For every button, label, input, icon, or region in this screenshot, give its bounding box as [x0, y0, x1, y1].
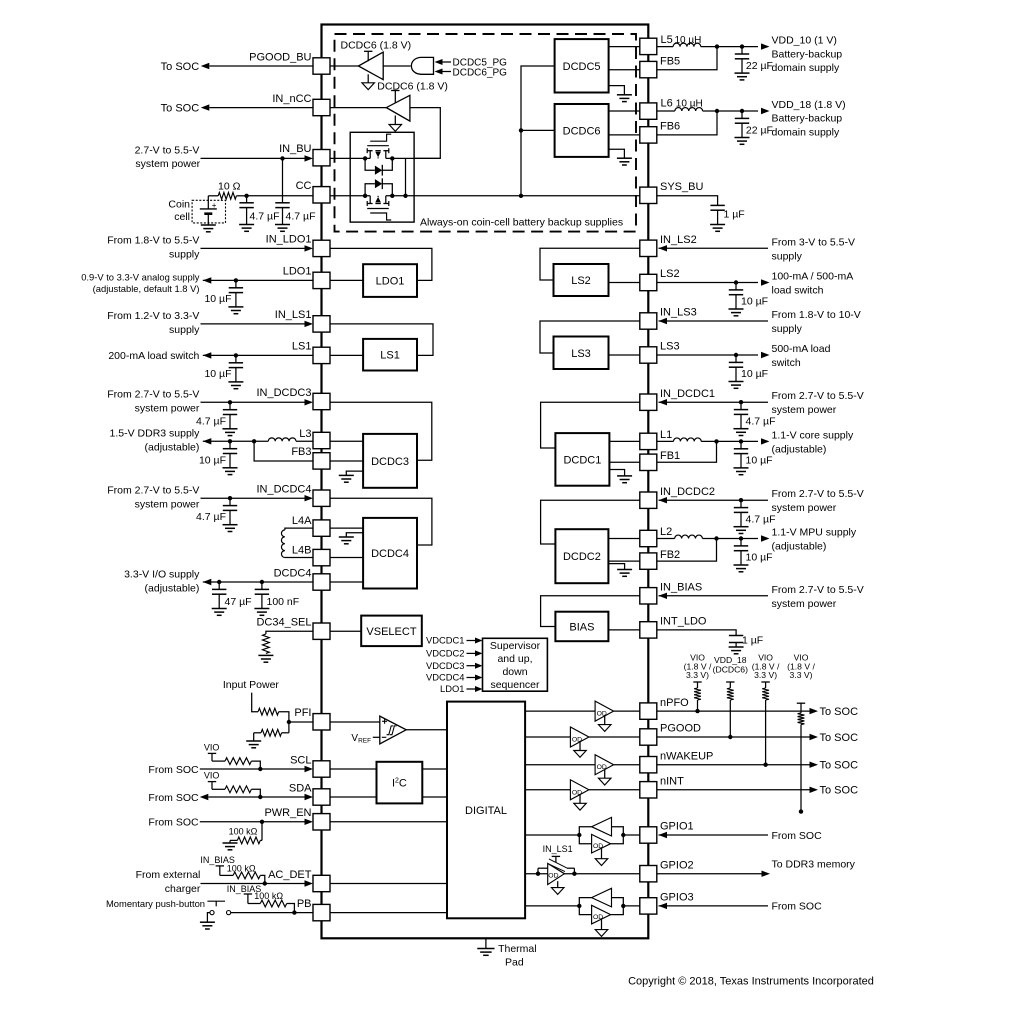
svg-text:10 Ω: 10 Ω	[218, 180, 241, 192]
pin IN_LS3 (right)	[640, 307, 697, 329]
wire DIGITAL to nINT buf	[525, 789, 570, 791]
svg-text:VIO: VIO	[204, 742, 220, 752]
capacitor C_IO2 100nF	[254, 582, 269, 615]
supervisor input VDCDC1	[426, 635, 483, 646]
ground DCDC2	[608, 564, 632, 577]
svg-text:22 µF: 22 µF	[746, 60, 773, 72]
wire L3 out	[203, 438, 268, 444]
svg-text:supply: supply	[772, 323, 803, 335]
wire supply to IN_LDO1	[201, 245, 314, 251]
text From SOC (GPIO1)	[772, 830, 823, 842]
text 1.5-V DDR3 supply	[110, 428, 201, 454]
text To SOC (PGOOD)	[820, 732, 859, 744]
svg-text:FB6: FB6	[660, 121, 680, 133]
wire PGOOD to SOC	[657, 734, 818, 740]
svg-text:LS3: LS3	[571, 348, 591, 360]
label L6	[661, 98, 673, 110]
label IN_LS1 (GPIO2)	[543, 844, 573, 854]
GPIO3 buffer cell	[525, 888, 640, 936]
text To DDR3 memory	[772, 858, 856, 870]
wire FB5 net	[657, 47, 717, 70]
svg-text:nWAKEUP: nWAKEUP	[660, 750, 713, 762]
DCDC2 block	[555, 529, 608, 583]
wire DCDC6 to L6 pin	[609, 110, 640, 112]
svg-text:From 2.7-V to 5.5-V: From 2.7-V to 5.5-V	[772, 584, 864, 596]
coin-cell switch block box	[350, 132, 414, 222]
capacitor C_LS1 10uF	[228, 355, 243, 388]
svg-text:100 nF: 100 nF	[267, 596, 300, 608]
svg-text:From SOC: From SOC	[148, 764, 199, 776]
text analog supply	[81, 272, 200, 295]
label VIO (SCL)	[204, 742, 220, 752]
svg-text:system power: system power	[772, 598, 837, 610]
text copyright	[628, 976, 874, 988]
diode D1	[365, 158, 392, 175]
label DCDC6 (1.8 V) mid	[377, 80, 448, 92]
pin PB	[297, 898, 330, 921]
svg-text:sequencer: sequencer	[490, 679, 540, 691]
supervisor/sequencer block	[483, 638, 548, 691]
capacitor C_DCDC1out 10uF	[734, 441, 749, 474]
svg-text:LS3: LS3	[660, 341, 680, 353]
text From SOC (GPIO3)	[772, 901, 823, 913]
text VDD_18 supply	[772, 99, 846, 138]
LS3 block	[554, 337, 609, 370]
wire IN_BIAS loop	[541, 596, 640, 627]
wire nPFO to SOC	[657, 708, 818, 714]
svg-text:GPIO2: GPIO2	[660, 859, 694, 871]
svg-text:SDA: SDA	[289, 782, 312, 794]
text To SOC (PGOOD_BU)	[161, 61, 200, 73]
pin LS2 (right)	[640, 268, 680, 290]
pin IN_DCDC4	[256, 484, 330, 507]
svg-text:supply: supply	[169, 324, 200, 336]
wire FB6 net	[657, 111, 717, 135]
capacitor C_DCDC2in 4.7uF	[734, 500, 749, 533]
wire IN_LS3 loop	[540, 321, 640, 353]
ground DCDC6	[609, 149, 632, 165]
ground DCDC3	[339, 471, 363, 482]
pin nPFO (right)	[640, 697, 689, 720]
DIGITAL block	[447, 702, 525, 919]
svg-text:cell: cell	[174, 211, 190, 223]
pin L4B	[313, 549, 330, 565]
svg-text:1 µF: 1 µF	[724, 209, 745, 221]
svg-text:VSELECT: VSELECT	[366, 626, 416, 638]
pullup R_PB	[244, 894, 297, 915]
supervisor input VDCDC4	[426, 672, 483, 683]
svg-text:10 µF: 10 µF	[746, 455, 773, 467]
text 1.1-V MPU supply	[772, 527, 857, 553]
svg-text:1.1-V MPU supply: 1.1-V MPU supply	[772, 527, 857, 539]
wire L6 net	[657, 108, 770, 114]
svg-text:Always-on coin-cell battery ba: Always-on coin-cell battery backup suppl…	[420, 217, 623, 229]
svg-text:3.3 V): 3.3 V)	[686, 670, 709, 680]
wire L4A to DCDC4	[330, 527, 363, 529]
wire IN_DCDC2	[659, 497, 769, 503]
text 200-mA load switch	[108, 350, 199, 362]
capacitor C_INBU 4.7uF	[275, 203, 290, 232]
text 2.7-V to 5.5-V system power	[135, 145, 201, 171]
wire LS2 out	[657, 279, 770, 285]
resistor R_DC34SEL	[263, 634, 270, 653]
wire DCDC1 to FB1	[609, 461, 640, 463]
wire FB3 to DCDC3	[330, 460, 363, 462]
wire CC net	[244, 194, 313, 198]
pullup R_nINT	[797, 703, 805, 814]
wire LS3 block out	[609, 354, 641, 356]
svg-text:L6: L6	[661, 98, 673, 110]
battery BT1 (coin cell)	[192, 196, 225, 225]
wire LS1 out	[203, 352, 363, 358]
wire DCDC6 to FB6 pin	[609, 134, 640, 136]
svg-text:100 kΩ: 100 kΩ	[229, 827, 258, 837]
svg-text:To SOC: To SOC	[820, 760, 859, 772]
svg-text:system power: system power	[135, 403, 200, 415]
wire AND output to buffer	[383, 65, 410, 67]
wire PB	[231, 912, 313, 914]
pin L4A	[313, 520, 330, 536]
DCDC3 block	[363, 434, 417, 488]
svg-text:IN_LS1: IN_LS1	[275, 309, 312, 321]
capacitor C_INTLDO 1uF	[729, 631, 744, 654]
capacitor C_DDR 10uF	[223, 441, 238, 474]
wire IN_DCDC3 loop	[330, 402, 432, 460]
pin IN_LS1	[275, 309, 330, 332]
svg-text:To SOC: To SOC	[161, 61, 200, 73]
svg-text:4.7 µF: 4.7 µF	[746, 514, 776, 526]
wire IN_LS1 loop	[330, 324, 433, 356]
svg-text:system power: system power	[135, 158, 200, 170]
capacitor C_DCDC1in 4.7uF	[734, 402, 749, 435]
capacitor C_LS2 10uF	[729, 283, 744, 316]
svg-text:(DCDC6): (DCDC6)	[713, 664, 748, 674]
wire IN_LDO1 loop	[330, 248, 432, 280]
label 22uF (L5)	[746, 60, 773, 72]
capacitor C_DCDC4in 4.7uF	[223, 498, 238, 531]
svg-text:SCL: SCL	[290, 754, 311, 766]
wire DCDC5_PG input	[435, 59, 452, 65]
wire FB1 net	[657, 441, 717, 462]
wire PGOOD_BU to SOC	[201, 63, 359, 69]
label 1uF (SYS_BU)	[724, 209, 745, 221]
svg-text:IN_LS2: IN_LS2	[660, 234, 697, 246]
supervisor input VDCDC2	[426, 648, 483, 659]
text From 3-V to 5.5-V supply	[772, 236, 855, 262]
svg-text:10 µH: 10 µH	[675, 35, 702, 46]
pin SCL	[290, 754, 330, 777]
label VIO col1	[684, 652, 712, 680]
svg-text:VDD_10 (1 V): VDD_10 (1 V)	[772, 35, 837, 47]
svg-text:(adjustable): (adjustable)	[772, 443, 827, 455]
svg-text:From SOC: From SOC	[772, 901, 823, 913]
wire nINT buf to pin	[589, 789, 640, 791]
wire FB2 net	[657, 539, 717, 562]
always-on battery backup dashed boundary	[335, 34, 637, 232]
pullup R_SDA	[208, 782, 263, 800]
IC outline U1 (PMIC)	[322, 25, 649, 939]
svg-text:10 µH: 10 µH	[676, 98, 703, 109]
svg-text:100 kΩ: 100 kΩ	[254, 891, 283, 901]
pin IN_DCDC1 (right)	[640, 388, 715, 411]
text From external charger	[136, 869, 201, 895]
inductor L3	[268, 438, 313, 441]
svg-text:OD: OD	[548, 872, 558, 879]
wire SCL	[200, 766, 313, 772]
svg-text:L4B: L4B	[292, 545, 312, 557]
capacitor C_DCDC2out 10uF	[734, 539, 749, 572]
label 4.7uF (DCDC1)	[746, 416, 776, 428]
svg-text:From SOC: From SOC	[148, 817, 199, 829]
svg-text:L1: L1	[660, 429, 672, 441]
wire IN_LS2 loop	[540, 248, 640, 280]
label VIO (SDA)	[204, 770, 220, 780]
label FB2	[660, 549, 680, 561]
svg-text:From SOC: From SOC	[772, 830, 823, 842]
svg-text:(adjustable): (adjustable)	[145, 582, 200, 594]
wire SDA to I2C	[330, 796, 377, 798]
svg-text:From 2.7-V to 5.5-V: From 2.7-V to 5.5-V	[107, 389, 199, 401]
wire SDA	[200, 794, 313, 800]
wire I2C to DIGITAL b	[422, 796, 447, 798]
svg-text:10 µF: 10 µF	[741, 296, 768, 308]
wire PGOOD buf to pin	[589, 736, 640, 738]
svg-text:From SOC: From SOC	[148, 792, 199, 804]
label 47uF	[225, 596, 252, 608]
DCDC5	[555, 39, 609, 92]
pin GPIO2 (right)	[640, 859, 694, 882]
wire IN_DCDC1 loop	[541, 402, 640, 448]
svg-text:FB5: FB5	[660, 55, 680, 67]
svg-text:From 3-V to 5.5-V: From 3-V to 5.5-V	[772, 236, 855, 248]
wire IN_LS2	[659, 245, 769, 251]
svg-text:L4A: L4A	[292, 515, 312, 527]
label DCDC6 (1.8 V) top	[341, 39, 412, 51]
capacitor C_DCDC3in 4.7uF	[223, 402, 238, 435]
svg-text:10 µF: 10 µF	[746, 552, 773, 564]
wire PFI node	[279, 712, 313, 725]
svg-text:From 2.7-V to 5.5-V: From 2.7-V to 5.5-V	[772, 488, 864, 500]
text From SOC (SCL)	[148, 764, 199, 776]
wire CC rail to SYS_BU	[330, 158, 640, 198]
svg-text:VDD_18 (1.8 V): VDD_18 (1.8 V)	[772, 99, 846, 111]
svg-text:To SOC: To SOC	[161, 103, 200, 115]
label 4.7uF (CC)	[250, 210, 280, 222]
svg-text:4.7 µF: 4.7 µF	[196, 415, 226, 427]
svg-text:Thermal: Thermal	[498, 943, 537, 955]
inductor L6	[675, 108, 703, 111]
VSELECT block	[361, 616, 422, 647]
label DCDC6_PG	[453, 67, 508, 78]
svg-text:LDO1: LDO1	[440, 683, 465, 694]
wire nWAKEUP buf to pin	[614, 764, 640, 766]
wire nWAKEUP to SOC	[657, 762, 818, 768]
text From SOC (PWR_EN)	[148, 817, 199, 829]
I2C block	[377, 762, 423, 804]
svg-text:From external: From external	[136, 869, 201, 881]
ground coin cell	[201, 225, 216, 232]
pin AC_DET	[268, 869, 330, 892]
svg-text:LS2: LS2	[660, 268, 680, 280]
svg-text:FB1: FB1	[660, 450, 680, 462]
svg-text:LS2: LS2	[571, 275, 591, 287]
svg-text:L2: L2	[660, 526, 672, 538]
text To SOC (nPFO)	[820, 706, 859, 718]
pin FB3	[291, 446, 330, 469]
svg-text:Input Power: Input Power	[223, 679, 280, 691]
svg-text:From 2.7-V to 5.5-V: From 2.7-V to 5.5-V	[772, 390, 864, 402]
I2C block label	[392, 778, 407, 790]
wire supply to IN_LS1	[201, 321, 314, 327]
svg-text:IN_DCDC2: IN_DCDC2	[660, 486, 715, 498]
capacitor C_LDO1 10uF	[228, 280, 243, 313]
label IN_BIAS (PB)	[227, 884, 262, 894]
pin PFI	[294, 707, 330, 730]
pin PGOOD_BU	[249, 51, 330, 74]
pin SDA	[289, 782, 330, 805]
pin PWR_EN	[264, 807, 330, 830]
label DCDC5_PG	[453, 57, 508, 68]
svg-text:1.5-V DDR3 supply: 1.5-V DDR3 supply	[110, 428, 201, 440]
wire DCDC4 out	[203, 579, 313, 585]
label 10uF (LS3)	[741, 368, 768, 380]
ground DCDC5	[609, 86, 632, 102]
svg-text:IN_LS1: IN_LS1	[543, 844, 573, 854]
capacitor C_LS3 10uF	[729, 355, 744, 388]
pin PGOOD (right)	[640, 723, 701, 746]
pulldown R_PWREN	[223, 822, 263, 850]
wire SCL to I2C	[330, 768, 377, 770]
text From 1.8-V to 5.5-V supply	[107, 235, 200, 261]
capacitor C_IO 47uF	[212, 582, 227, 615]
svg-text:supply: supply	[169, 249, 200, 261]
pin IN_BU	[279, 143, 330, 166]
GPIO1 buffer cell	[525, 817, 640, 865]
svg-text:LDO1: LDO1	[376, 276, 405, 288]
label L1	[660, 429, 672, 441]
text From 1.8-V to 10-V supply	[772, 309, 861, 335]
label 10uH (L6)	[676, 98, 703, 109]
pin LDO1	[283, 266, 330, 289]
svg-text:IN_BU: IN_BU	[279, 143, 311, 155]
text 1.1-V core supply	[772, 429, 854, 455]
wire LS3 out	[657, 352, 770, 358]
wire PFI to comparator	[330, 721, 380, 723]
label 22uF (L6)	[746, 124, 773, 136]
wire IN_DCDC4 loop	[330, 498, 432, 545]
svg-text:To SOC: To SOC	[820, 732, 859, 744]
svg-text:SYS_BU: SYS_BU	[660, 181, 703, 193]
wire I2C to DIGITAL a	[422, 768, 447, 770]
wire DCDC4 pin to block	[330, 581, 363, 583]
wire DIGITAL to nPFO buf	[525, 710, 595, 712]
svg-text:Coin: Coin	[168, 199, 190, 211]
svg-text:4.7 µF: 4.7 µF	[250, 210, 280, 222]
wire nINT to SOC	[657, 787, 818, 793]
wire AC_DET to DIGITAL	[330, 883, 447, 885]
svg-text:LS1: LS1	[292, 341, 312, 353]
ground PFI divider	[246, 733, 261, 748]
text 500-mA load switch	[772, 343, 831, 369]
svg-text:2.7-V to 5.5-V: 2.7-V to 5.5-V	[135, 145, 200, 157]
text From 2.7-V to 5.5-V (DCDC4)	[107, 485, 200, 511]
label 10uF (LS2)	[741, 296, 768, 308]
ground DC34_SEL	[258, 655, 273, 662]
svg-text:Battery-backup: Battery-backup	[772, 48, 843, 60]
label 10uF (DCDC2)	[746, 552, 773, 564]
svg-text:10 µF: 10 µF	[204, 368, 231, 380]
label FB1	[660, 450, 680, 462]
pin GPIO1 (right)	[640, 821, 694, 844]
svg-text:L3: L3	[299, 428, 311, 440]
LS1 block	[363, 339, 417, 371]
pin L3	[313, 432, 330, 448]
svg-text:load switch: load switch	[772, 285, 824, 297]
pin IN_BIAS (right)	[640, 582, 702, 605]
svg-text:PGOOD_BU: PGOOD_BU	[249, 51, 311, 63]
wire system power to IN_DCDC4	[201, 495, 314, 501]
capacitor C_L5 22uF	[735, 47, 750, 80]
svg-text:and up,: and up,	[497, 653, 532, 665]
text From 2.7 (DCDC2)	[772, 488, 864, 514]
svg-text:3.3 V): 3.3 V)	[790, 670, 813, 680]
svg-text:1 µF: 1 µF	[742, 635, 763, 647]
supervisor input LDO1	[440, 683, 483, 694]
pullup R_ACDET	[216, 866, 267, 886]
svg-text:GPIO1: GPIO1	[660, 821, 694, 833]
label L3	[299, 428, 311, 440]
wire DCDC2 to FB2	[608, 560, 640, 562]
buffer U4 (IN_nCC driver)	[386, 91, 410, 132]
pin IN_LDO1	[266, 234, 330, 257]
text From 2.7-V to 5.5-V (DCDC3)	[107, 389, 200, 415]
capacitor C_SYSBU 1uF	[710, 198, 725, 231]
label L5	[661, 34, 673, 46]
pin LS3 (right)	[640, 341, 680, 363]
wire DC34_SEL to resistor	[266, 631, 313, 634]
pin IN_DCDC3	[256, 387, 330, 410]
svg-text:500-mA load: 500-mA load	[772, 343, 831, 355]
inductor L4A/L4B	[281, 530, 284, 558]
pin FB6 (right)	[640, 121, 680, 143]
svg-text:4.7 µF: 4.7 µF	[746, 416, 776, 428]
svg-text:(adjustable): (adjustable)	[145, 442, 200, 454]
svg-text:LDO1: LDO1	[283, 266, 312, 278]
label 10 ohm	[218, 180, 241, 192]
pullup R_PGOOD	[726, 682, 734, 739]
pin L1 (right)	[640, 433, 657, 449]
wire GPIO2 to DDR3	[657, 871, 770, 877]
wire LS2 block out	[609, 282, 641, 284]
svg-text:DC34_SEL: DC34_SEL	[256, 617, 311, 629]
svg-text:VDCDC2: VDCDC2	[426, 648, 465, 659]
svg-text:GPIO3: GPIO3	[660, 892, 694, 904]
wire L4A	[285, 528, 313, 530]
svg-text:DIGITAL: DIGITAL	[465, 805, 507, 817]
svg-text:L5: L5	[661, 34, 673, 46]
svg-text:IN_BIAS: IN_BIAS	[660, 582, 702, 594]
wire VREF	[373, 736, 380, 738]
resistor R1 10ohm	[208, 192, 246, 199]
wire AC_DET	[201, 880, 314, 886]
wire IN_nCC to SOC	[201, 104, 386, 110]
diode D2	[365, 178, 392, 196]
text 100-mA/500-mA load switch	[772, 271, 854, 297]
label 10uF (DCDC1)	[746, 455, 773, 467]
label 4.7uF (DCDC4)	[196, 511, 226, 523]
svg-text:3.3 V): 3.3 V)	[754, 670, 777, 680]
label 4.7uF (DCDC2)	[746, 514, 776, 526]
